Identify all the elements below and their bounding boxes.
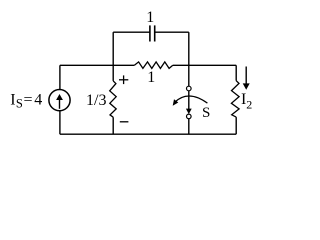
svg-text:1: 1 [146,9,154,26]
wire: left branch below source [59,111,61,135]
resistor R 1/3 (vertical zigzag) [110,81,117,117]
svg-text:1/3: 1/3 [86,92,106,109]
current arrow I2 (down) [245,67,247,85]
wire: capacitor branch top right [155,31,189,33]
wire: bottom rail [60,133,236,135]
switch S top terminal circle [187,86,192,91]
wire: middle rail right segment [173,64,236,66]
wire: capacitor branch left riser [112,32,114,65]
svg-text:IS=4: IS=4 [10,92,42,111]
wire: right branch lower stub [235,117,237,134]
current source IS arrow (up) [59,99,61,109]
polarity minus sign [120,121,129,123]
capacitor C value 1 (two plates) [149,25,151,41]
wire: right branch upper stub [235,65,237,80]
wire: middle rail left segment [60,64,134,66]
svg-text:1: 1 [147,69,155,86]
wire: switch branch upper stub [188,65,190,86]
polarity plus sign [119,79,128,81]
switch S motion arrowhead [173,99,179,106]
svg-text:S: S [202,105,210,121]
wire: switch branch lower stub [188,119,190,134]
wire: left branch above source [59,65,61,89]
wire: 1/3-branch upper stub [112,65,114,81]
wire: 1/3-branch lower stub [112,117,114,134]
resistor R2 (vertical zigzag, I2 branch) [231,81,239,117]
switch S bottom terminal circle [187,114,192,119]
switch S blade arrow (down) [188,91,190,110]
svg-text:I2: I2 [241,91,252,112]
switch S motion arc [174,96,207,103]
wire: capacitor branch right riser [188,32,190,65]
resistor R-mid value 1 (horizontal zigzag) [134,62,172,69]
wire: capacitor branch top left [113,31,150,33]
current source IS circle [49,90,70,111]
